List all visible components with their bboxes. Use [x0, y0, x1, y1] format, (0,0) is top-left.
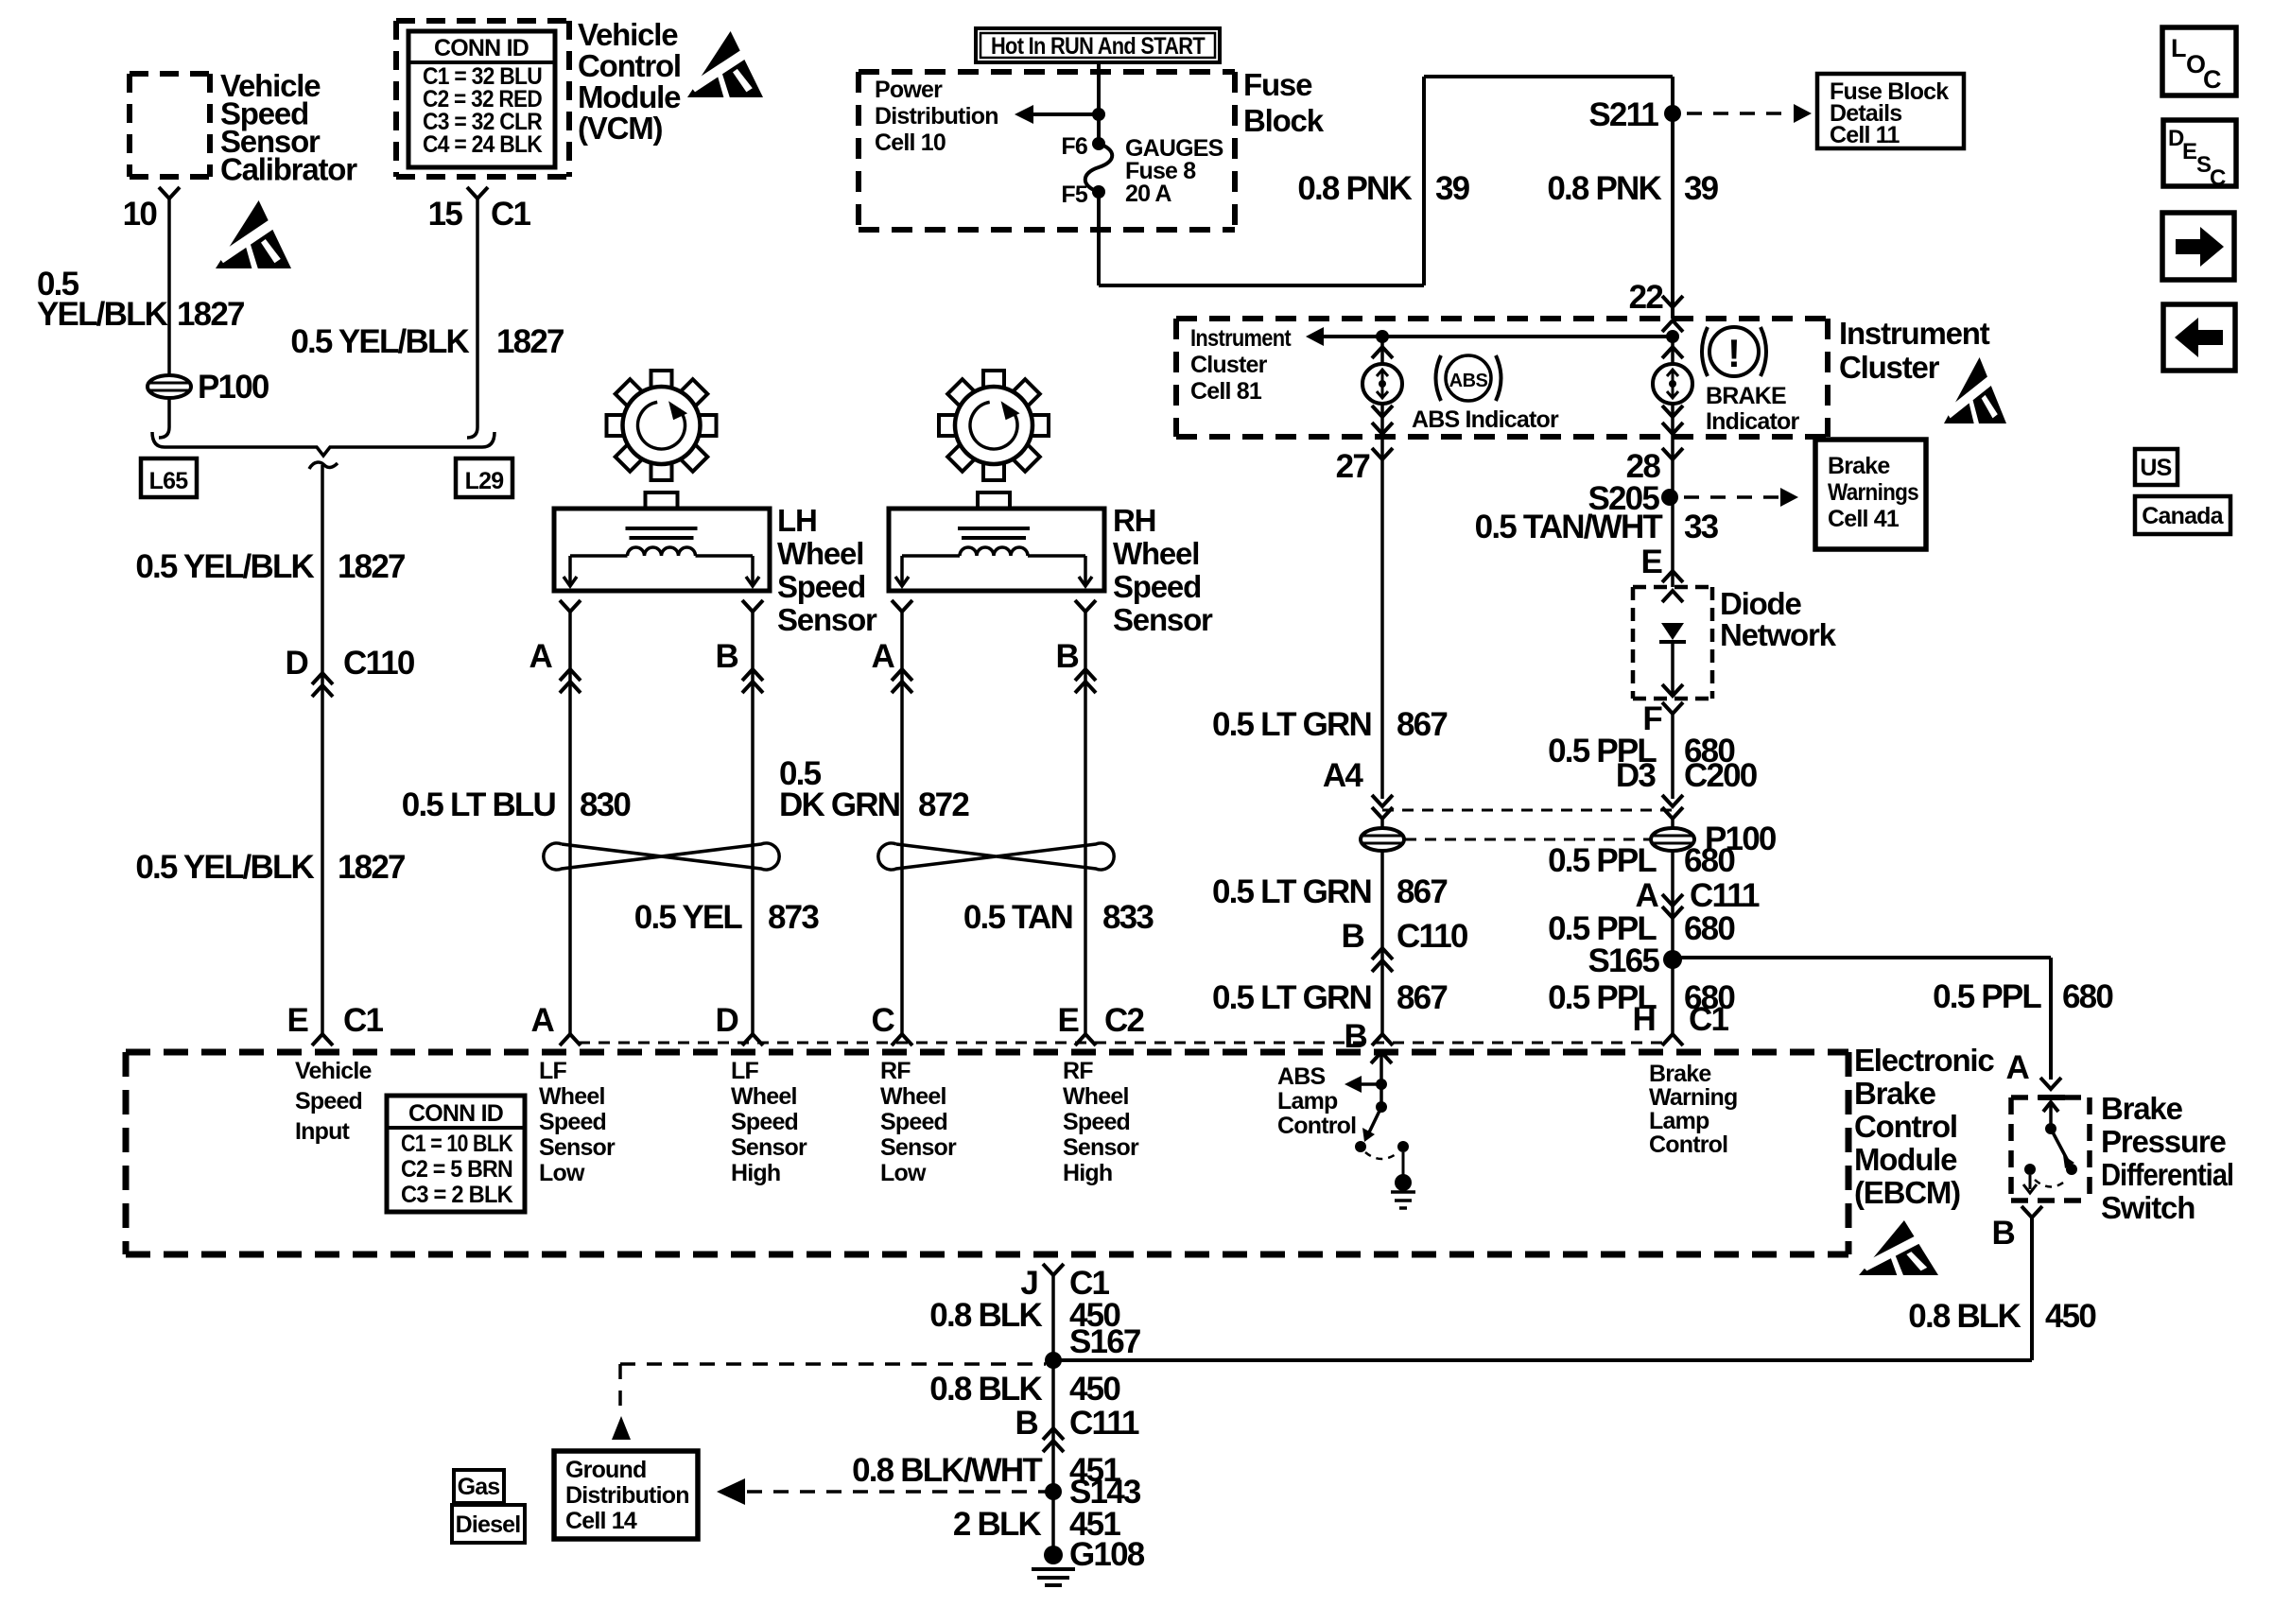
- svg-text:C: C: [2203, 65, 2222, 94]
- svg-text:C111: C111: [1690, 877, 1760, 914]
- cluster exit connectors: [1380, 404, 1384, 417]
- svg-text:Power: Power: [875, 77, 943, 103]
- svg-text:Sensor: Sensor: [1063, 1134, 1139, 1161]
- box Ground Distribution Cell 14: [554, 1451, 698, 1539]
- Diesel box: [452, 1505, 525, 1543]
- splice S143: [1045, 1483, 1062, 1500]
- splice brace joining calibrator and VCM wires: [152, 432, 495, 456]
- svg-text:US: US: [2140, 455, 2171, 481]
- svg-text:S167: S167: [1069, 1323, 1140, 1360]
- arrow line inside cluster: [1323, 335, 1673, 338]
- svg-text:Module: Module: [578, 79, 681, 114]
- svg-text:LF: LF: [539, 1058, 566, 1084]
- svg-text:867: 867: [1397, 706, 1447, 743]
- svg-text:E: E: [1057, 1002, 1078, 1039]
- svg-text:Wheel: Wheel: [539, 1083, 605, 1110]
- svg-text:1827: 1827: [496, 323, 564, 360]
- svg-text:B: B: [1342, 918, 1364, 955]
- svg-text:L: L: [2171, 34, 2187, 62]
- svg-text:E: E: [1640, 544, 1661, 580]
- svg-text:A: A: [872, 638, 895, 675]
- svg-text:0.8 BLK: 0.8 BLK: [929, 1371, 1042, 1408]
- svg-text:0.5 LT GRN: 0.5 LT GRN: [1212, 706, 1371, 743]
- wire 0.8 PNK 39 path to S211: [1097, 192, 1101, 285]
- svg-text:Input: Input: [295, 1118, 351, 1145]
- svg-text:G108: G108: [1069, 1536, 1145, 1573]
- svg-text:A4: A4: [1323, 757, 1363, 794]
- svg-text:Cell 11: Cell 11: [1830, 122, 1900, 148]
- svg-text:1827: 1827: [338, 849, 405, 886]
- svg-text:Canada: Canada: [2142, 503, 2224, 529]
- svg-text:LF: LF: [731, 1058, 758, 1084]
- svg-text:15: 15: [428, 196, 463, 233]
- svg-text:1827: 1827: [338, 548, 405, 585]
- svg-text:2 BLK: 2 BLK: [953, 1506, 1042, 1543]
- svg-text:ABS: ABS: [1449, 371, 1488, 391]
- wire below P100 to brace: [167, 398, 171, 427]
- svg-text:E: E: [286, 1002, 307, 1039]
- connector P100 (left instance): [147, 375, 191, 398]
- svg-text:0.8 PNK: 0.8 PNK: [1297, 170, 1412, 207]
- component: LH wheel speed sensor with tone wheel: [698, 415, 717, 436]
- svg-text:Cluster: Cluster: [1839, 350, 1940, 385]
- svg-text:DK GRN: DK GRN: [779, 786, 899, 823]
- svg-text:L29: L29: [465, 468, 504, 494]
- wire: vehicle speed input 0.5 YEL/BLK 1827: [321, 465, 324, 1034]
- svg-text:C200: C200: [1684, 757, 1758, 794]
- label box: Hot In RUN And START: [976, 28, 1220, 62]
- svg-text:Cell 41: Cell 41: [1828, 506, 1900, 532]
- svg-text:C111: C111: [1069, 1405, 1139, 1442]
- svg-text:B: B: [1015, 1405, 1038, 1442]
- svg-text:CONN ID: CONN ID: [434, 35, 529, 61]
- svg-text:0.5 YEL/BLK: 0.5 YEL/BLK: [135, 548, 314, 585]
- svg-text:C1 = 10 BLK: C1 = 10 BLK: [401, 1131, 513, 1157]
- svg-text:450: 450: [1069, 1371, 1120, 1408]
- svg-text:Wheel: Wheel: [1063, 1083, 1129, 1110]
- svg-text:Control: Control: [1854, 1109, 1957, 1144]
- svg-text:Calibrator: Calibrator: [220, 152, 357, 187]
- svg-text:S165: S165: [1588, 942, 1659, 979]
- svg-text:Instrument: Instrument: [1190, 325, 1292, 352]
- arrow to power distribution: [1032, 112, 1099, 116]
- svg-text:1827: 1827: [177, 296, 244, 333]
- svg-text:0.8 BLK/WHT: 0.8 BLK/WHT: [852, 1452, 1042, 1489]
- svg-text:680: 680: [1684, 910, 1735, 947]
- svg-text:C: C: [872, 1002, 895, 1039]
- svg-text:H: H: [1633, 1001, 1655, 1038]
- svg-text:Control: Control: [1649, 1132, 1727, 1158]
- svg-text:Lamp: Lamp: [1649, 1108, 1709, 1134]
- svg-text:Sensor: Sensor: [880, 1134, 957, 1161]
- splice S165: [1663, 950, 1682, 969]
- svg-text:B: B: [1992, 1215, 2015, 1252]
- svg-text:Wheel: Wheel: [731, 1083, 797, 1110]
- svg-text:RF: RF: [1063, 1058, 1093, 1084]
- svg-text:High: High: [731, 1160, 780, 1186]
- svg-text:Pressure: Pressure: [2101, 1124, 2227, 1159]
- CONN ID table (EBCM): [387, 1096, 525, 1212]
- ABS symbol: [1446, 355, 1491, 401]
- component: Instrument Cluster dashed box: [1176, 316, 1828, 321]
- svg-text:Warnings: Warnings: [1828, 479, 1918, 506]
- svg-text:Vehicle: Vehicle: [295, 1058, 372, 1084]
- svg-text:C110: C110: [1397, 918, 1468, 955]
- ABS lamp control switch inside EBCM: [1371, 1052, 1392, 1063]
- ground G108: [1044, 1546, 1063, 1564]
- svg-text:Control: Control: [1277, 1113, 1356, 1139]
- svg-text:L65: L65: [149, 468, 189, 494]
- svg-text:Speed: Speed: [1063, 1109, 1130, 1135]
- svg-text:Wheel: Wheel: [880, 1083, 946, 1110]
- icon LOC: [2162, 27, 2236, 95]
- svg-text:Sensor: Sensor: [1113, 602, 1213, 637]
- svg-text:Cell 81: Cell 81: [1190, 378, 1262, 405]
- svg-text:Electronic: Electronic: [1854, 1043, 1994, 1078]
- svg-text:E: E: [2182, 139, 2197, 164]
- wire from hot box through fuse: [1097, 62, 1101, 144]
- svg-text:C3 = 2 BLK: C3 = 2 BLK: [401, 1182, 513, 1208]
- component: Vehicle Speed Sensor Calibrator (dashed box): [130, 71, 210, 77]
- P100 pass-through left: [1380, 828, 1384, 1034]
- splice S205: [1661, 489, 1678, 506]
- svg-text:B: B: [716, 638, 738, 675]
- svg-text:Wheel: Wheel: [1113, 536, 1199, 571]
- svg-text:Low: Low: [539, 1160, 585, 1186]
- svg-text:Distribution: Distribution: [565, 1482, 689, 1509]
- svg-text:F5: F5: [1061, 181, 1087, 208]
- svg-text:A: A: [1636, 877, 1659, 914]
- svg-text:C110: C110: [343, 645, 415, 682]
- svg-text:0.8 BLK: 0.8 BLK: [1908, 1298, 2021, 1335]
- svg-text:0.5 LT GRN: 0.5 LT GRN: [1212, 873, 1371, 910]
- component: Brake Pressure Differential Switch: [2011, 1095, 2090, 1100]
- svg-text:Speed: Speed: [777, 569, 865, 604]
- svg-text:Gas: Gas: [458, 1474, 500, 1500]
- svg-text:0.5 LT GRN: 0.5 LT GRN: [1212, 979, 1371, 1016]
- diode symbol: [1662, 591, 1683, 602]
- svg-text:0.5 YEL/BLK: 0.5 YEL/BLK: [290, 323, 469, 360]
- EBCM pin J / C1 ground wire: [1043, 1264, 1064, 1275]
- dashed reference S143 to ground distribution: [717, 1478, 745, 1505]
- svg-text:0.5 YEL/BLK: 0.5 YEL/BLK: [135, 849, 314, 886]
- Canada box: [2135, 496, 2230, 534]
- svg-text:B: B: [1056, 638, 1079, 675]
- wire 0.8 BLK 450 from switch to S167: [2030, 1218, 2034, 1360]
- svg-text:Diode: Diode: [1720, 586, 1802, 621]
- svg-text:22: 22: [1629, 279, 1664, 316]
- box Brake Warnings Cell 41: [1815, 440, 1926, 549]
- dashed reference S167 to ground distribution: [620, 1362, 1046, 1366]
- dashed reference to brake warnings: [1684, 495, 1779, 499]
- svg-text:D3: D3: [1616, 757, 1656, 794]
- component: Electronic Brake Control Module (EBCM) dashed box: [126, 1049, 1848, 1056]
- svg-text:Module: Module: [1854, 1142, 1957, 1177]
- ESD symbol near calibrator: [216, 200, 291, 268]
- twisted pair symbols: [544, 843, 779, 870]
- svg-text:Vehicle: Vehicle: [578, 17, 678, 52]
- svg-text:CONN ID: CONN ID: [408, 1100, 503, 1127]
- svg-text:Indicator: Indicator: [1706, 408, 1799, 435]
- dashed link P100: [1405, 838, 1650, 841]
- svg-text:Distribution: Distribution: [875, 103, 998, 130]
- svg-text:C2 = 5 BRN: C2 = 5 BRN: [401, 1156, 512, 1183]
- svg-text:450: 450: [2045, 1298, 2096, 1335]
- svg-text:(VCM): (VCM): [578, 111, 663, 146]
- dashed link C200: [1382, 809, 1673, 812]
- svg-text:Brake: Brake: [2101, 1091, 2183, 1126]
- svg-text:867: 867: [1397, 979, 1447, 1016]
- dashed connector line along top of EBCM: [579, 1042, 1664, 1045]
- brake warning symbol ((!)): [1709, 327, 1759, 376]
- svg-text:Sensor: Sensor: [777, 602, 877, 637]
- svg-text:C4 = 24 BLK: C4 = 24 BLK: [423, 131, 543, 158]
- connector pin 15 C1: [467, 187, 488, 199]
- svg-text:0.5 YEL: 0.5 YEL: [634, 899, 743, 936]
- svg-text:27: 27: [1336, 448, 1370, 485]
- svg-text:Speed: Speed: [731, 1109, 798, 1135]
- svg-text:Switch: Switch: [2101, 1190, 2195, 1225]
- icon arrow right: [2162, 213, 2234, 280]
- svg-text:39: 39: [1435, 170, 1470, 207]
- component: RH wheel speed sensor with tone wheel: [1030, 415, 1049, 436]
- Gas box: [454, 1470, 504, 1503]
- svg-text:Instrument: Instrument: [1839, 316, 1990, 351]
- ABS indicator lamp: [1372, 347, 1393, 358]
- wire 0.5 PPL 680 to switch: [1673, 956, 2051, 959]
- svg-text:833: 833: [1102, 899, 1154, 936]
- US box: [2135, 449, 2178, 485]
- svg-text:A: A: [531, 1002, 555, 1039]
- svg-text:(EBCM): (EBCM): [1854, 1175, 1960, 1210]
- splice S211: [1664, 105, 1681, 122]
- svg-text:Warning: Warning: [1649, 1084, 1737, 1111]
- svg-text:33: 33: [1684, 509, 1719, 545]
- box Fuse Block Details Cell 11: [1817, 74, 1964, 148]
- svg-text:Brake: Brake: [1854, 1076, 1936, 1111]
- svg-text:C1: C1: [1689, 1001, 1728, 1038]
- connector C200 left: [1372, 795, 1393, 806]
- svg-text:Fuse: Fuse: [1243, 67, 1312, 102]
- svg-text:!: !: [1727, 331, 1741, 375]
- ground symbol inside EBCM: [1402, 1152, 1405, 1177]
- ESD symbol near instrument cluster: [1944, 357, 2006, 423]
- svg-text:F6: F6: [1061, 133, 1087, 160]
- code L65 box: [141, 458, 197, 497]
- svg-text:P100: P100: [198, 369, 269, 406]
- fuse GAUGES Fuse 8 20A: [1092, 137, 1105, 150]
- component: Fuse Block dashed box: [859, 69, 1235, 75]
- svg-text:873: 873: [768, 899, 819, 936]
- svg-text:680: 680: [2062, 978, 2113, 1015]
- icon arrow left: [2163, 304, 2235, 371]
- svg-text:20 A: 20 A: [1125, 181, 1171, 207]
- connector pin 10: [159, 187, 180, 199]
- svg-text:Wheel: Wheel: [777, 536, 863, 571]
- svg-text:872: 872: [918, 786, 969, 823]
- svg-text:Low: Low: [880, 1160, 927, 1186]
- svg-text:39: 39: [1684, 170, 1719, 207]
- svg-text:C: C: [2210, 165, 2226, 191]
- svg-text:680: 680: [1684, 842, 1735, 879]
- svg-text:C1: C1: [491, 196, 530, 233]
- svg-text:Differential: Differential: [2101, 1157, 2233, 1192]
- svg-text:0.8 BLK: 0.8 BLK: [929, 1297, 1042, 1334]
- code L29 box: [456, 458, 512, 497]
- component: Diode Network dashed box: [1633, 585, 1712, 590]
- icon DESC: [2163, 120, 2236, 186]
- svg-text:Block: Block: [1243, 103, 1325, 138]
- svg-text:Brake: Brake: [1828, 453, 1890, 479]
- svg-text:Network: Network: [1720, 617, 1837, 652]
- CONN ID table (VCM): [408, 31, 555, 167]
- svg-text:Sensor: Sensor: [731, 1134, 807, 1161]
- svg-text:10: 10: [123, 196, 158, 233]
- svg-text:Cell 10: Cell 10: [875, 130, 946, 156]
- svg-text:Speed: Speed: [295, 1088, 362, 1114]
- svg-text:S211: S211: [1588, 96, 1658, 133]
- svg-text:Cluster: Cluster: [1190, 352, 1268, 378]
- svg-text:High: High: [1063, 1160, 1112, 1186]
- svg-text:C2: C2: [1104, 1002, 1144, 1039]
- wire 0.5 YEL/BLK 1827 from VCM to brace: [476, 199, 479, 427]
- svg-text:0.5 LT BLU: 0.5 LT BLU: [402, 786, 556, 823]
- svg-text:ABS Indicator: ABS Indicator: [1412, 406, 1559, 433]
- svg-text:Control: Control: [578, 48, 681, 83]
- svg-text:YEL/BLK: YEL/BLK: [37, 296, 168, 333]
- svg-text:D: D: [286, 645, 308, 682]
- svg-text:0.5 TAN: 0.5 TAN: [963, 899, 1072, 936]
- svg-text:LH: LH: [777, 503, 817, 538]
- svg-text:Brake: Brake: [1649, 1061, 1711, 1087]
- svg-text:0.5 PPL: 0.5 PPL: [1548, 842, 1657, 879]
- svg-text:A: A: [2006, 1049, 2030, 1086]
- ESD symbol near EBCM: [1859, 1220, 1938, 1275]
- svg-text:Ground: Ground: [565, 1457, 646, 1483]
- svg-text:Speed: Speed: [539, 1109, 606, 1135]
- svg-text:Lamp: Lamp: [1277, 1088, 1338, 1114]
- svg-text:Diesel: Diesel: [456, 1512, 521, 1538]
- dashed reference to fuse block details: [1687, 112, 1793, 115]
- svg-text:Hot In RUN And START: Hot In RUN And START: [991, 33, 1205, 60]
- svg-text:867: 867: [1397, 873, 1447, 910]
- svg-text:A: A: [529, 638, 553, 675]
- svg-text:0.5 TAN/WHT: 0.5 TAN/WHT: [1475, 509, 1663, 545]
- svg-text:Sensor: Sensor: [539, 1134, 616, 1161]
- svg-text:Speed: Speed: [880, 1109, 947, 1135]
- svg-text:ABS: ABS: [1277, 1063, 1326, 1090]
- wire 0.5 LT GRN 867: [1380, 459, 1384, 799]
- wire: 0.5 YEL/BLK 1827 from calibrator to P100: [167, 199, 171, 375]
- svg-text:830: 830: [580, 786, 631, 823]
- svg-text:Speed: Speed: [1113, 569, 1201, 604]
- P100 pass-through right: [1671, 819, 1674, 1034]
- svg-text:BRAKE: BRAKE: [1706, 383, 1786, 409]
- svg-text:D: D: [716, 1002, 738, 1039]
- svg-text:Cell 14: Cell 14: [565, 1508, 637, 1534]
- ESD symbol near VCM: [687, 31, 763, 97]
- BRAKE indicator lamp: [1662, 347, 1683, 358]
- svg-text:0.5 PPL: 0.5 PPL: [1933, 978, 2041, 1015]
- svg-text:0.8 PNK: 0.8 PNK: [1547, 170, 1661, 207]
- svg-text:RH: RH: [1113, 503, 1155, 538]
- svg-text:RF: RF: [880, 1058, 911, 1084]
- svg-text:C1: C1: [343, 1002, 383, 1039]
- component: Vehicle Control Module (VCM) dashed box: [396, 18, 569, 24]
